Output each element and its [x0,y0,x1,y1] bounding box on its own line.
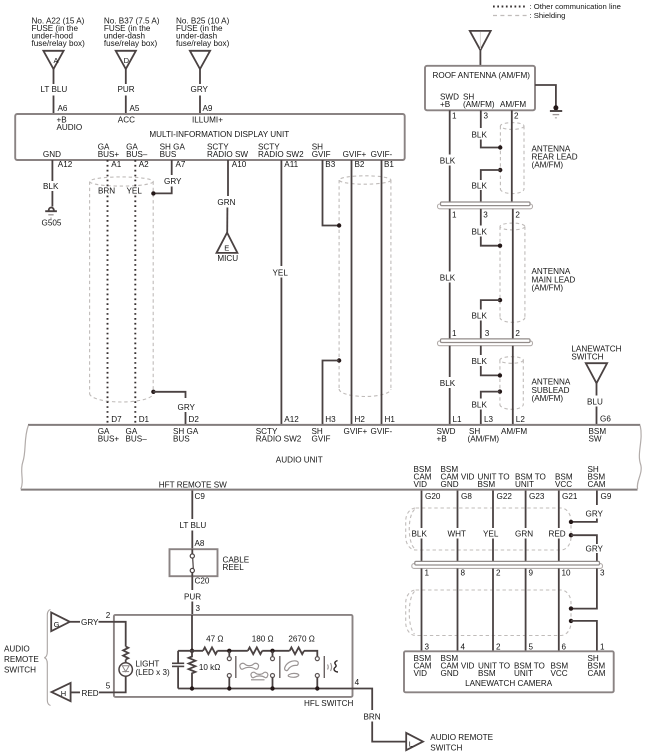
wire GVIF- B1 to H1 [381,160,383,424]
svg-text:(AM/FM): (AM/FM) [532,394,564,403]
svg-text:BUS+: BUS+ [98,150,120,159]
lanewatch camera unit [404,651,614,692]
wire light to pin 5 [114,676,126,692]
svg-text:2: 2 [515,329,520,338]
junction pin3 rail [190,649,194,653]
wire BLK G20 to camera connector [412,491,428,561]
wire PUR fuse B37 to pin A5 [118,69,140,114]
svg-text:H3: H3 [325,415,336,424]
svg-text:BLK: BLK [43,182,59,191]
svg-text:3: 3 [196,604,201,613]
svg-text:2: 2 [496,642,501,651]
svg-text:G8: G8 [461,492,472,501]
svg-text:YEL: YEL [483,530,499,539]
svg-text:A11: A11 [284,160,298,169]
svg-text:VID: VID [414,480,428,489]
junction bottom rail nodes [190,686,320,690]
svg-text:3: 3 [600,569,605,578]
svg-text:4: 4 [355,678,360,687]
svg-text:1: 1 [452,211,457,220]
wire AM/FM main lead pin2 [512,209,514,339]
svg-text:REEL: REEL [223,563,245,572]
capacitor C1 [172,651,184,689]
svg-text:E: E [224,244,229,253]
wire GRY G to HFL pin 2 [70,611,114,627]
svg-text:3: 3 [484,112,489,121]
in-line connector C3 lanewatch [412,561,603,568]
svg-text:UNIT: UNIT [514,669,533,678]
wire SH GVIF drain B3 to shield [323,160,340,226]
svg-text:PUR: PUR [184,593,201,602]
svg-text:: Shielding: : Shielding [530,11,566,20]
wire BLK main drain top [472,209,501,246]
svg-text:G23: G23 [529,492,545,501]
svg-text:2: 2 [514,112,519,121]
svg-text:BLK: BLK [440,274,456,283]
svg-text:LT BLU: LT BLU [180,521,207,530]
svg-text:AM/FM: AM/FM [500,100,526,109]
svg-text:A5: A5 [130,104,140,113]
svg-text:L3: L3 [484,415,494,424]
svg-text:WHT: WHT [448,530,467,539]
svg-text:CAM: CAM [588,480,606,489]
resistor 47 ohm [203,634,223,654]
wire GRN from SCTY RADIO SW A10 to MICU [217,160,235,233]
svg-text:fuse/relay box): fuse/relay box) [176,39,230,48]
svg-text:BLK: BLK [472,401,488,410]
wire BLK SH pin3 drain to shield [472,110,501,147]
svg-text:(AM/FM): (AM/FM) [463,100,495,109]
junction GVIF shield top [337,223,341,227]
junction lanewatch shield mid [569,533,573,537]
wire roof antenna case to ground [535,85,556,108]
wire GRY fuse B25 to pin A9 [191,69,213,114]
wire GRY shield drain from A7 [153,160,182,193]
svg-text:SWITCH: SWITCH [430,743,462,752]
svg-text:MULTI-INFORMATION DISPLAY UNIT: MULTI-INFORMATION DISPLAY UNIT [149,130,289,139]
svg-text:GVIF: GVIF [312,435,331,444]
svg-text:10: 10 [562,569,572,578]
svg-text:D: D [124,56,130,65]
shielding antenna main lead [500,223,525,322]
svg-text:UNIT: UNIT [515,480,534,489]
junction GVIF shield bottom [337,358,341,362]
svg-text:1: 1 [600,642,605,651]
svg-text:ROOF ANTENNA (AM/FM): ROOF ANTENNA (AM/FM) [433,71,531,80]
svg-text:(AM/FM): (AM/FM) [468,435,500,444]
ground G505 [42,208,62,228]
svg-text:BRN: BRN [98,187,115,196]
svg-text:A10: A10 [232,160,247,169]
multi-information display unit U1 [15,114,405,160]
svg-text:BLK: BLK [472,312,488,321]
svg-text:2: 2 [496,569,501,578]
svg-text:BLU: BLU [587,398,603,407]
svg-text:B3: B3 [325,160,335,169]
junction sublead shield top [498,373,502,377]
fuse No. A22 (15 A) under-hood [32,17,86,70]
junction sw2 [270,649,274,653]
svg-text:YEL: YEL [273,269,289,278]
svg-text:A2: A2 [139,160,149,169]
switch SW3 (voice) [315,656,338,689]
connector L triangle audio remote switch [406,733,493,753]
connector E MICU [217,233,239,263]
svg-text:RADIO SW: RADIO SW [207,150,248,159]
svg-text:L2: L2 [516,415,526,424]
ground roof antenna (with junction dot) [550,105,562,118]
svg-text:G22: G22 [497,492,513,501]
svg-text:BSM: BSM [478,480,496,489]
svg-text:PUR: PUR [118,85,135,94]
roof antenna (AM/FM) unit [425,66,535,111]
svg-text:GRY: GRY [191,85,209,94]
audio unit top edge signal names [98,427,607,444]
lanewatch shielding lower [406,590,571,636]
svg-text:SWITCH: SWITCH [571,352,603,361]
junction shield top drain [151,191,155,195]
fuse No. B37 (7.5 A) under-dash [104,17,160,70]
wire GRY shield to D2 [153,392,195,424]
svg-text:1: 1 [452,329,457,338]
fuse No. B25 (10 A) under-dash [176,17,230,70]
in-line connector C1 antenna rear to main [438,202,533,209]
wire PUR C20 to HFL switch pin 3 [184,576,201,615]
junction rear lead shield bottom [498,168,502,172]
wire GVIF+ B2 to H2 [351,160,353,424]
svg-text:BLK: BLK [440,379,456,388]
svg-text:H1: H1 [385,415,396,424]
wire camera pin 5 [525,568,527,651]
connector H triangle (audio remote switch) [52,683,71,701]
wire GRY G9 to shield [571,491,604,522]
wire AM/FM sublead pin2 to L2 [512,346,514,424]
svg-text:4: 4 [461,642,466,651]
svg-text:A6: A6 [58,104,68,113]
svg-text:+B: +B [440,100,450,109]
wire BLK sublead drain bottom to L3 [472,392,500,424]
svg-text:GND: GND [441,480,459,489]
junction lower shield top [569,606,573,610]
svg-text:GVIF-: GVIF- [371,427,393,436]
svg-text:B1: B1 [384,160,394,169]
svg-text:BLK: BLK [472,357,488,366]
svg-text:SWITCH: SWITCH [4,665,36,674]
rail segment [262,650,289,652]
wire AM/FM pin2 to connector [511,110,513,202]
svg-text:VID: VID [414,669,428,678]
wire BRN HFL pin 4 to connector L [353,689,407,742]
svg-text:BUS+: BUS+ [98,435,120,444]
svg-text:GRY: GRY [81,618,99,627]
resistor 10 kohm [189,651,221,689]
svg-text:A8: A8 [195,539,205,548]
svg-text:RED: RED [82,689,99,698]
svg-text:VCC: VCC [551,669,568,678]
svg-text:BUS: BUS [173,435,190,444]
connector G triangle (audio remote switch) [51,613,70,632]
svg-text:CAM: CAM [588,669,606,678]
junction main lead shield top [498,244,502,248]
svg-text:1: 1 [452,112,457,121]
svg-text:G20: G20 [425,492,441,501]
svg-text:RADIO SW2: RADIO SW2 [256,435,302,444]
shielding around GVIF pair [339,176,391,397]
shielding around GA BUS pair (display to audio unit) [90,177,154,402]
junction lanewatch shield top [569,520,573,524]
svg-text:6: 6 [562,642,567,651]
audio remote switch label and brace [4,610,51,706]
HFL ladder top rail [178,650,203,652]
svg-text:HFT REMOTE SW: HFT REMOTE SW [159,480,227,489]
junction lower shield bottom [569,619,573,623]
svg-text:SW: SW [589,435,602,444]
wire shield to H3 [323,361,340,425]
wire BLK SWD+B pin1 to connector [440,110,456,202]
svg-text:G505: G505 [42,218,62,227]
junction sublead shield bottom [498,389,502,393]
svg-text:(AM/FM): (AM/FM) [532,284,564,293]
svg-text:BUS–: BUS– [126,435,148,444]
light LED x3 [119,660,170,678]
HFL illumination branch wire [114,622,126,647]
wire BLK sublead pin1 to L1 [440,346,456,424]
svg-text:fuse/relay box): fuse/relay box) [104,39,158,48]
svg-text:ILLUMI+: ILLUMI+ [192,115,223,124]
wire YEL G22 [483,491,499,561]
svg-text:1: 1 [425,569,430,578]
wire camera pin 4 [457,568,459,651]
svg-text:BLK: BLK [472,228,488,237]
svg-text:D7: D7 [111,415,122,424]
svg-text:G21: G21 [562,492,578,501]
wire HFL pin 3 to ladder [191,615,193,651]
svg-text:REMOTE: REMOTE [4,655,39,664]
junction sw1 [227,649,231,653]
wire camera pin 6 [558,568,560,651]
svg-text:A: A [53,56,58,65]
svg-text:BLK: BLK [412,530,428,539]
svg-text:GVIF-: GVIF- [371,150,393,159]
wire LT BLU fuse A22 to pin A6 [41,69,68,114]
note antenna sublead [532,378,571,403]
rail to sw3 [304,651,317,657]
svg-text:HFL SWITCH: HFL SWITCH [304,699,353,708]
shielding antenna rear lead [500,123,524,194]
svg-text:BRN: BRN [364,713,381,722]
svg-text:3: 3 [485,329,490,338]
svg-text:+B: +B [437,435,447,444]
svg-text:G9: G9 [601,492,612,501]
resistor 2670 ohm [288,634,314,654]
switch SW1 (phone pick-up) [227,651,268,689]
svg-text:VCC: VCC [555,480,572,489]
svg-text:BUS: BUS [160,150,177,159]
svg-text:C9: C9 [195,492,206,501]
wire BRN GA BUS+ A1 to D7 (other communication line) [98,160,115,424]
junction shield bottom drain [151,390,155,394]
wire camera pin 2 [492,568,494,651]
wire shield to camera pin 1 [571,621,597,651]
audio unit bottom-right signal names [414,465,606,489]
wire RED H to HFL pin 5 [71,681,114,698]
svg-text:MICU: MICU [217,254,238,263]
svg-text:GRY: GRY [164,177,182,186]
svg-text:2: 2 [106,611,111,620]
svg-text:2: 2 [515,211,520,220]
svg-text:: Other communication line: : Other communication line [530,2,621,11]
lanewatch switch connector triangle [571,344,621,383]
HFL switch unit box [114,615,354,708]
svg-text:AUDIO REMOTE: AUDIO REMOTE [430,733,493,742]
svg-text:BSM: BSM [478,669,496,678]
svg-text:C20: C20 [195,576,210,585]
svg-text:A12: A12 [58,160,73,169]
svg-text:LT BLU: LT BLU [41,85,68,94]
wire YEL from SCTY RADIO SW2 A11 to A12 [273,160,289,424]
svg-text:3: 3 [425,642,430,651]
svg-text:A7: A7 [176,160,186,169]
svg-text:180 Ω: 180 Ω [252,634,274,643]
svg-text:10 kΩ: 10 kΩ [199,663,220,672]
svg-text:GVIF+: GVIF+ [343,150,367,159]
svg-text:BLK: BLK [472,182,488,191]
wire WHT G8 [448,491,467,561]
note antenna rear lead [532,144,578,169]
shielding antenna sublead [500,357,523,410]
svg-text:2670 Ω: 2670 Ω [288,634,314,643]
svg-text:8: 8 [461,569,466,578]
svg-text:(AM/FM): (AM/FM) [532,161,564,170]
in-line connector C2 antenna main to sublead [438,339,533,346]
wire BLK from GND A12 [43,160,59,207]
resistor R4 (light series) [123,647,128,660]
lanewatch shielding upper [406,508,571,550]
svg-text:GRN: GRN [515,530,533,539]
svg-text:BLK: BLK [472,131,488,140]
svg-text:AUDIO: AUDIO [4,645,30,654]
svg-text:AM/FM: AM/FM [501,427,527,436]
legend: other communication line sample [493,2,621,11]
svg-text:LANEWATCH CAMERA: LANEWATCH CAMERA [465,679,553,688]
svg-text:G: G [54,620,60,629]
wire SH BSM CAM to lower shield [571,568,597,608]
HFL ladder bottom rail to pin 4 [178,688,352,690]
note antenna main lead [532,267,576,292]
svg-text:BLK: BLK [440,157,456,166]
svg-text:G6: G6 [600,414,611,423]
svg-text:fuse/relay box): fuse/relay box) [32,39,86,48]
legend: shielding sample [493,11,565,20]
svg-text:YEL: YEL [127,187,143,196]
svg-text:3: 3 [483,211,488,220]
svg-text:A1: A1 [111,160,121,169]
svg-text:A12: A12 [284,415,299,424]
svg-text:A9: A9 [203,104,213,113]
svg-text:L1: L1 [453,415,463,424]
wire LT BLU C9 to cable reel A8 [180,491,207,550]
svg-text:H: H [61,689,66,698]
svg-text:RED: RED [549,530,566,539]
svg-text:L: L [409,740,413,749]
antenna mast symbol [470,31,491,66]
svg-text:D2: D2 [189,415,200,424]
junction rear lead shield top [498,145,502,149]
wire BLK main lead pin1 [440,209,456,339]
svg-text:GVIF+: GVIF+ [344,427,368,436]
svg-text:5: 5 [106,681,111,690]
wire YEL GA BUS- A2 to D1 (other communication line) [127,160,143,424]
rail segment [217,650,247,652]
switch SW2 (phone hang-up) [271,651,299,689]
wire RED G21 [549,491,566,561]
svg-text:H2: H2 [355,415,366,424]
svg-text:BUS–: BUS– [126,150,148,159]
svg-text:5: 5 [529,642,534,651]
svg-text:GRY: GRY [586,545,604,554]
svg-text:GRY: GRY [586,510,604,519]
svg-text:ACC: ACC [118,115,135,124]
resistor 180 ohm [248,634,274,654]
wire BLK sublead drain top [472,346,500,376]
svg-text:GVIF: GVIF [312,150,331,159]
wire BLK shield to connector pin3 [472,170,501,202]
wire BLU lanewatch switch to G6 [587,383,611,424]
svg-text:AUDIO: AUDIO [57,123,83,132]
svg-text:RADIO SW2: RADIO SW2 [258,150,304,159]
svg-text:GRY: GRY [178,403,196,412]
svg-text:(LED x 3): (LED x 3) [135,668,170,677]
svg-text:GRN: GRN [217,198,235,207]
cable reel [170,549,250,585]
svg-text:47 Ω: 47 Ω [206,634,223,643]
svg-text:D1: D1 [139,415,150,424]
wire BLK main drain bottom [472,300,501,338]
wire GRN G23 [515,491,533,561]
svg-text:9: 9 [529,569,534,578]
svg-text:AUDIO UNIT: AUDIO UNIT [276,456,323,465]
svg-text:B2: B2 [355,160,365,169]
wire camera pin 3 [421,568,423,651]
audio unit (partial band) [21,425,641,490]
svg-text:GND: GND [43,150,61,159]
wire GRY shield to connector pin 3 [571,535,604,561]
junction main lead shield bottom [498,298,502,302]
svg-text:GND: GND [441,669,459,678]
